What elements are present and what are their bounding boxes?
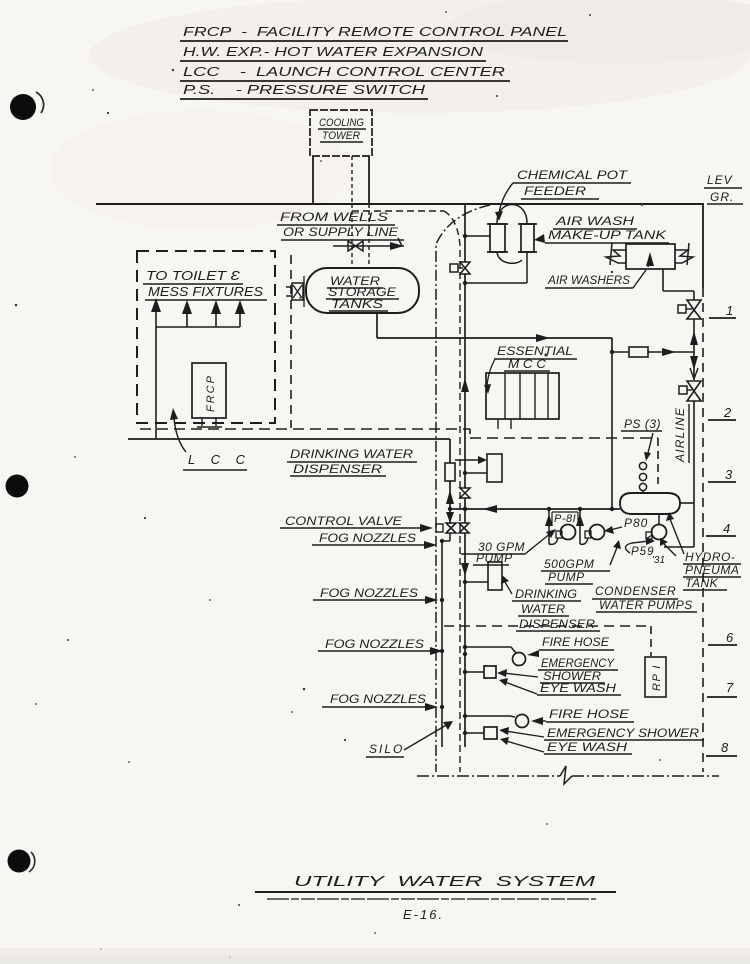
air washers label [545,270,646,288]
legend line HW EXP [180,44,486,61]
feed line y352 with strainer [610,347,694,357]
svg-text:DISPENSER: DISPENSER [519,617,595,631]
svg-text:FEEDER: FEEDER [524,184,586,198]
cooling tower box [310,110,372,156]
svg-text:MAKE-UP TANK: MAKE-UP TANK [548,228,667,242]
cooling tower legs [313,156,369,204]
svg-text:PNEUMA: PNEUMA [685,563,739,577]
svg-text:7: 7 [726,680,734,695]
emergency shower 2 [463,727,497,739]
svg-text:GR.: GR. [710,190,734,204]
svg-text:LCC - LAUNCH CONTROL CENTE: LCC - LAUNCH CONTROL CENTER [183,64,505,79]
svg-text:FRCP - FACILITY REMOTE CONTR: FRCP - FACILITY REMOTE CONTROL PANEL [183,24,567,39]
airline label [673,404,689,463]
svg-text:M C C: M C C [508,357,546,371]
chemical pot feeder vessels [487,205,537,264]
feed line y338 [465,334,612,352]
svg-text:FRCP: FRCP [205,374,217,412]
svg-text:FROM WELLS: FROM WELLS [280,210,388,224]
hydro-pneumatic tank [620,493,694,514]
svg-text:8: 8 [721,740,729,755]
svg-text:'31: '31 [652,555,665,566]
pipe air washers to valve 1 [663,269,694,300]
svg-text:3: 3 [725,467,733,482]
svg-text:FOG NOZZLES: FOG NOZZLES [325,637,424,651]
hydro-pneuma tank label [683,550,741,590]
tank outlet pipe [377,313,465,338]
svg-text:WATER PUMPS: WATER PUMPS [599,598,693,612]
svg-text:PUMP: PUMP [476,551,513,565]
level tick 7 [707,680,737,697]
control valve pair [436,523,469,533]
drinking dispenser 2 [463,562,502,590]
legend line LCC [180,64,510,81]
level tick 8 [706,740,737,756]
svg-text:PUMP: PUMP [548,570,585,584]
svg-text:LEV: LEV [707,173,733,187]
valve on riser [450,262,470,274]
pump P59 [646,514,667,540]
supply line with valve [333,238,404,251]
svg-text:1: 1 [726,303,733,318]
eye wash 2 label [500,737,632,754]
riser x694 down to valve 2 [690,352,698,380]
fire hose 2 label [531,707,634,725]
500 gpm pump label [541,540,621,584]
fog riser x442 [440,533,450,747]
level tick 3 [708,467,736,482]
svg-text:P80: P80 [624,516,648,530]
riser x694 lower [664,401,694,547]
level tick 1 [709,303,736,318]
level tick 6 [708,630,737,645]
silo wall dashed [352,211,460,772]
svg-text:FOG NOZZLES: FOG NOZZLES [319,531,416,545]
FRCP panel [192,363,226,427]
LCC control dashed bus [140,429,658,484]
legend line FRCP [180,24,568,41]
svg-text:MESS FIXTURES: MESS FIXTURES [148,284,263,299]
drinking water dispenser label upper [287,447,417,476]
svg-text:500GPM: 500GPM [544,557,594,571]
svg-text:TANK: TANK [685,576,719,590]
svg-text:TOWER: TOWER [322,130,360,142]
valve 1 [678,300,701,319]
punch hole top [10,92,44,120]
svg-text:6: 6 [726,630,734,645]
essential MCC box [486,373,559,419]
fire hose 1 label [527,635,614,657]
punch hole middle [6,475,29,498]
svg-text:FIRE HOSE: FIRE HOSE [542,635,610,649]
fire hose 2 [463,714,529,728]
emergency shower 2 label [499,726,704,740]
svg-text:PS (3): PS (3) [624,417,661,431]
from wells label [277,210,404,240]
feeder piping to riser [463,234,527,285]
svg-text:DRINKING: DRINKING [515,587,577,601]
chemical pot feeder label [495,168,631,221]
svg-text:P59: P59 [631,546,654,558]
fog nozzles label 2 [313,586,444,604]
dispenser 1 box [455,454,502,482]
fog nozzles label 1 [312,531,437,549]
title [255,873,616,922]
emergency shower 1 label [497,656,618,683]
essential MCC label [484,344,577,394]
svg-text:DRINKING WATER: DRINKING WATER [290,447,413,461]
svg-text:FOG NOZZLES: FOG NOZZLES [320,586,418,600]
svg-text:SILO: SILO [369,742,404,756]
fog nozzles label 3 [318,637,444,655]
pump P-81 [545,509,576,544]
svg-text:CHEMICAL POT: CHEMICAL POT [517,168,629,182]
punch hole bottom [8,850,35,873]
toilet supply arrows [151,298,245,327]
svg-text:DISPENSER: DISPENSER [293,462,382,476]
svg-text:OR SUPPLY LINE: OR SUPPLY LINE [283,225,399,239]
svg-text:E-16.: E-16. [403,907,444,922]
control valve label [280,514,433,532]
fog nozzles label 4 [322,692,444,711]
svg-text:L C C: L C C [188,452,251,467]
pump P80 [576,509,605,544]
LEV GR labels [704,173,743,204]
svg-text:FIRE HOSE: FIRE HOSE [549,707,630,721]
toilet dashed box [137,251,291,428]
level tick 2 [708,405,736,420]
svg-text:2: 2 [723,405,732,420]
LCC dashed boundary y626 [444,626,651,656]
PS(3) label [621,417,662,461]
silo label [366,721,453,757]
svg-text:AIR WASH: AIR WASH [555,214,635,228]
svg-text:WATER: WATER [521,602,565,616]
svg-text:TO TOILET Ɛ: TO TOILET Ɛ [146,268,240,283]
tank inlet fitting [286,276,304,307]
svg-text:TANKS: TANKS [331,297,383,311]
svg-text:EMERGENCY SHOWER: EMERGENCY SHOWER [547,726,699,740]
svg-text:HYDRO-: HYDRO- [685,550,735,564]
svg-text:COOLING: COOLING [319,117,364,129]
svg-text:H.W. EXP.- HOT WATER EXPANSION: H.W. EXP.- HOT WATER EXPANSION [183,44,484,59]
to toilet label [143,268,267,300]
water storage tank [306,268,419,313]
svg-text:RP I: RP I [651,664,663,691]
riser x450 with strainer [445,439,455,524]
svg-text:EYE WASH: EYE WASH [547,740,627,754]
valve on branch x465 [460,488,470,511]
svg-text:P.S. - PRESSURE SWITCH: P.S. - PRESSURE SWITCH [183,82,426,97]
eye wash 1 label [499,678,621,695]
svg-text:FOG NOZZLES: FOG NOZZLES [330,692,426,706]
svg-text:AIRLINE: AIRLINE [673,407,687,463]
grade line [96,203,704,205]
svg-text:AIR WASHERS: AIR WASHERS [547,273,630,287]
svg-text:4: 4 [723,521,730,536]
cooling tower pipes below grade [352,204,369,268]
RP1 panel [645,657,666,697]
cold water drop from feed line [611,352,613,509]
pump discharge header [448,505,620,513]
30 gpm pump label [461,529,556,565]
MCC feeder stubs [498,419,511,429]
right wall line [702,204,704,772]
pressure switches [639,462,646,493]
svg-text:UTILITY WATER SYSTEM: UTILITY WATER SYSTEM [294,873,596,890]
valve 2 [679,381,701,401]
legend line PS [180,82,428,99]
air wash make-up tank label [534,214,669,243]
svg-text:EMERGENCY: EMERGENCY [541,656,615,670]
svg-text:P-8I: P-8I [554,513,576,525]
emergency shower 1 [463,666,496,678]
condenser water pumps label [592,584,697,612]
pump P-81 label [552,512,578,525]
riser x465 lower [461,498,469,747]
svg-text:EYE WASH: EYE WASH [540,681,616,695]
hydro tank leader lines [660,512,684,556]
air washers unit [606,243,693,269]
svg-text:CONDENSER: CONDENSER [595,584,676,598]
level tick 4 [706,521,736,536]
toilet riser [155,327,157,439]
riser to air washers [690,319,698,352]
main riser upper [461,204,469,488]
pump P59 label [625,537,665,566]
pump P80 label [604,516,648,534]
svg-text:CONTROL VALVE: CONTROL VALVE [285,514,403,528]
LCC label [170,408,251,470]
silo wall dash-dot [436,205,490,772]
svg-text:ESSENTIAL: ESSENTIAL [497,344,573,358]
drinking water dispenser label lower [501,575,600,631]
domestic pipe y439 [128,438,450,440]
fire hose 1 [463,645,526,666]
bottom boundary with break [417,766,719,784]
